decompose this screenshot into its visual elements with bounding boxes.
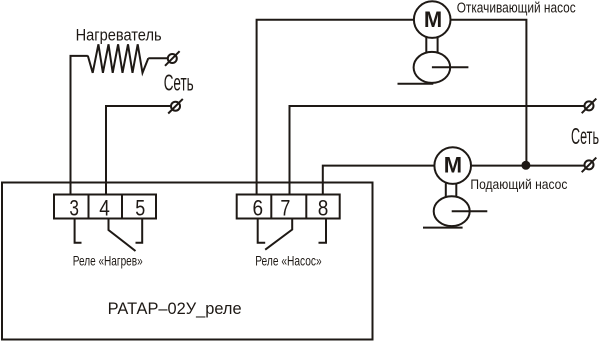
relay contact: pin 8 fixed contact [319,219,327,243]
coupling M2 to pump P2 [446,184,457,197]
terminal: mains neutral (lower right) [582,158,597,173]
svg-text:Нагреватель: Нагреватель [76,26,162,45]
wire: heater right lead to mains terminal [148,57,168,59]
wire: pin 8 up and right to motor M2 [323,166,435,195]
svg-text:Реле «Нагрев»: Реле «Нагрев» [73,253,143,269]
coupling M1 to pump P1 [426,37,437,52]
svg-text:М: М [444,152,462,177]
svg-text:Подающий насос: Подающий насос [470,176,567,192]
relay contact: pin 6 fixed contact [258,219,266,243]
wire: pin 4 up and right to mains neutral terminal [106,106,171,195]
svg-text:М: М [424,7,442,32]
relay contact: pin 4 moving arm [109,219,136,252]
relay box РАТАР-02У [2,183,373,340]
wire: motor M2 right to mains terminal (lower right) [471,165,584,167]
svg-text:Сеть: Сеть [571,123,599,149]
terminal: mains neutral (lower left) [168,99,183,114]
svg-text:Реле «Насос»: Реле «Насос» [255,253,322,269]
relay contact: pin 5 fixed contact [136,219,143,243]
svg-text:РАТАР–02У_реле: РАТАР–02У_реле [108,299,242,318]
pump P2 [423,196,487,227]
svg-text:8: 8 [318,195,329,220]
wire: pin 6 up and right to motor M1 [257,20,414,195]
svg-text:6: 6 [253,195,264,220]
wire: pin 7 up and right to mains terminal (upper right) [290,106,585,195]
svg-text:3: 3 [69,195,79,220]
pump P1 [398,52,469,84]
svg-text:Откачивающий насос: Откачивающий насос [457,0,576,16]
terminal block 3-4-5 [54,195,156,219]
relay contact: pin 7 moving arm [265,219,292,250]
motor M2 (Подающий насос) [434,147,471,184]
wire: motor M1 right to mains bus, down to junction [451,20,527,165]
terminal: mains phase (upper left) [165,51,180,66]
svg-text:7: 7 [280,195,290,220]
terminal block 6-7-8 [237,195,340,219]
resistor R (heater element) [88,44,149,73]
svg-text:5: 5 [135,195,145,220]
svg-text:4: 4 [99,195,110,220]
junction node: mains bus joins motor M2 wire [521,161,530,170]
relay contact: pin 3 fixed contact [75,219,82,243]
terminal: mains phase (upper right) [582,99,597,114]
motor M1 (Откачивающий насос) [414,1,451,38]
wire: pin 3 up to heater left lead [71,56,88,195]
svg-text:Сеть: Сеть [164,70,194,96]
